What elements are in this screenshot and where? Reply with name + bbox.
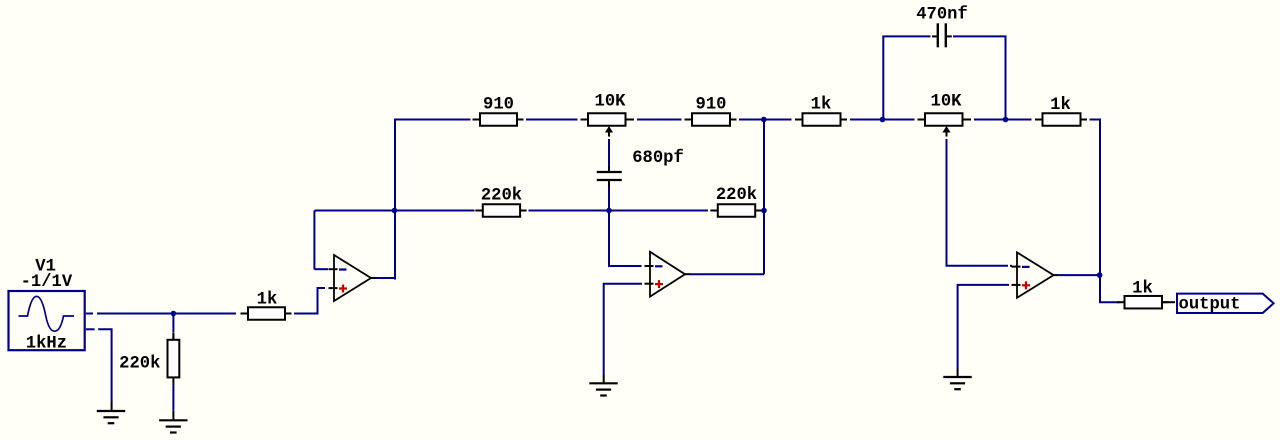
capacitor 470nf (938, 23, 946, 47)
node D junction top row (761, 117, 767, 123)
wire pot1 to 910 #2 (637, 119, 682, 121)
svg-text:1kHz: 1kHz (26, 335, 67, 354)
wire V1 output to input resistor (97, 313, 236, 315)
op-amp U1 (329, 255, 377, 301)
ground below 220k (159, 420, 187, 432)
voltage source V1, sine generator 1kHz (9, 291, 95, 350)
svg-text:10K: 10K (931, 92, 963, 111)
wire U1 output up to top row (376, 120, 471, 280)
label 1k (1050, 96, 1071, 115)
wire pot2 to node F (974, 119, 1003, 121)
wire feedback row left segment (314, 210, 474, 212)
potentiometer 10K #1 (581, 113, 635, 136)
label 1kHz (26, 335, 67, 354)
label 10K (595, 92, 627, 111)
label 1k (1132, 279, 1153, 298)
capacitor 680pf (597, 172, 622, 180)
label -1/1V (21, 273, 73, 292)
label 10K (931, 92, 963, 111)
svg-text:910: 910 (696, 95, 727, 114)
wire 910 #2 to node D (739, 119, 762, 121)
svg-text:1k: 1k (811, 95, 832, 114)
wire V1 negative pin to ground (98, 329, 111, 410)
wire pot2 wiper to U3 inverting input (947, 139, 1013, 266)
svg-text:680pf: 680pf (632, 149, 684, 168)
resistor 220k #1 (475, 204, 526, 217)
wire node F to 1k (1008, 119, 1032, 121)
svg-text:910: 910 (483, 95, 514, 114)
wire pot1 wiper to 680pf (608, 139, 610, 171)
svg-text:output: output (1179, 295, 1241, 314)
label 1k (811, 95, 832, 114)
wire 1k to output connector (1162, 301, 1175, 303)
svg-text:-1/1V: -1/1V (21, 273, 73, 292)
node H junction (U3 output / 1k feedback / output) (1097, 272, 1103, 278)
potentiometer 10K #2 (918, 113, 972, 136)
svg-text:1k: 1k (1132, 279, 1153, 298)
wire node A to 220k (172, 316, 174, 340)
svg-text:470nf: 470nf (916, 6, 968, 25)
output connector flag (1177, 294, 1274, 313)
node C junction (680pf / U2 inverting) (606, 208, 612, 214)
resistor 1k (input) (241, 307, 292, 320)
ground below U2 (589, 383, 617, 395)
resistor 910 #1 (473, 113, 524, 126)
wire 1k to U1 non-inverting input (294, 288, 325, 315)
wire node H down to output resistor (1100, 277, 1121, 302)
label 1k (257, 290, 278, 309)
resistor 1k (output) (1117, 296, 1169, 309)
op-amp U3 (1012, 252, 1059, 297)
wire 470nf to node F (947, 36, 1006, 118)
resistor 220k #2 (710, 204, 761, 217)
op-amp U2 (645, 252, 691, 297)
wire U2 output vertical to top row (763, 121, 765, 274)
resistor 1k (feedback, top right) (1035, 113, 1087, 126)
svg-text:220k: 220k (119, 355, 160, 374)
label 220k (119, 355, 160, 374)
ground below V1 (97, 411, 125, 423)
wire node E up to 470nf (883, 36, 937, 118)
svg-text:220k: 220k (716, 186, 757, 205)
node E junction (470nf left) (880, 117, 886, 123)
label 910 (696, 95, 727, 114)
wire U1 inverting input to feedback row (314, 211, 328, 270)
ground below U3 (943, 377, 971, 389)
label 220k (716, 186, 757, 205)
resistor 220k (input shunt) (168, 332, 180, 383)
wire 1k to node E (850, 119, 880, 121)
wire 1k down to U3 output node (1090, 120, 1101, 274)
label 470nf (916, 6, 968, 25)
wire U3 output to node H (1059, 274, 1097, 276)
label 680pf (632, 149, 684, 168)
wire node D to 1k (766, 119, 792, 121)
svg-text:220k: 220k (481, 187, 522, 206)
wire node E to pot 10K #2 (885, 119, 915, 121)
wire 680pf through node C to U2 inverting input (609, 181, 642, 266)
label 910 (483, 95, 514, 114)
wire U2 non-inverting input to ground (604, 284, 642, 383)
node A junction (V1 / 220k / 1k) (171, 311, 177, 317)
node B junction (U1 output / feedback row) (392, 208, 398, 214)
wire 910 to pot 10K #1 (526, 119, 578, 121)
label output (1179, 295, 1241, 314)
svg-text:1k: 1k (1050, 96, 1071, 115)
wire 220k to ground (172, 383, 174, 419)
resistor 1k (top row) (795, 113, 847, 126)
svg-text:1k: 1k (257, 290, 278, 309)
node G junction (U2 output feedback) (761, 208, 767, 214)
node F junction (470nf right) (1003, 117, 1009, 123)
wire U3 non-inverting input to ground (958, 285, 1009, 376)
label V1 (35, 258, 56, 277)
label 220k (481, 187, 522, 206)
svg-text:10K: 10K (595, 92, 627, 111)
wire 220k #1 to node C and 220k #2 (529, 210, 709, 212)
resistor 910 #2 (685, 113, 737, 126)
wire U2 output (690, 273, 764, 275)
